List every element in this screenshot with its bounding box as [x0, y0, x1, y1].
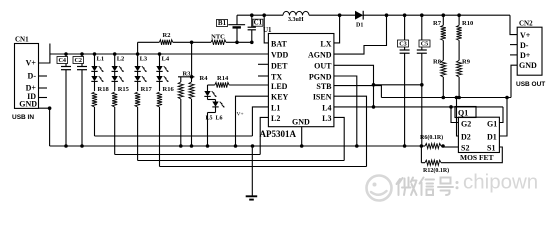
resistor R10	[457, 13, 474, 60]
svg-text:GND: GND	[519, 61, 537, 70]
svg-text:L2: L2	[271, 114, 280, 123]
svg-text:R17: R17	[141, 86, 153, 93]
wire divider bottom line	[381, 96, 511, 100]
wire top rail left	[237, 14, 283, 16]
wire CN1 ID pin	[39, 97, 48, 99]
svg-text:DET: DET	[271, 61, 288, 70]
node C2 bus junction	[80, 144, 84, 148]
svg-text:R9: R9	[462, 59, 471, 66]
wire L4 return	[160, 166, 367, 168]
resistor R6	[420, 134, 445, 149]
resistor R3	[178, 70, 191, 148]
watermark	[367, 171, 539, 201]
svg-text:USB OUT: USB OUT	[516, 81, 545, 88]
svg-text:G1: G1	[487, 120, 497, 129]
label MOS FET	[460, 153, 494, 162]
wire CN1 GND pin	[39, 106, 52, 146]
op-amp U1 AP5301A	[263, 26, 334, 127]
svg-text:GND: GND	[292, 117, 310, 126]
svg-text:GND: GND	[19, 100, 37, 109]
svg-text:L6: L6	[216, 115, 223, 121]
svg-text:R2: R2	[163, 32, 171, 39]
label USB OUT	[516, 81, 545, 88]
resistor R9	[457, 59, 471, 98]
resistor R2	[138, 32, 192, 45]
svg-text:S2: S2	[461, 144, 469, 153]
inductor 3.3uH	[283, 11, 309, 22]
wire G1	[499, 107, 503, 123]
svg-text:KEY: KEY	[271, 93, 289, 102]
wire D2	[455, 96, 459, 136]
svg-text:CN2: CN2	[519, 19, 533, 27]
svg-text:V+: V+	[237, 112, 244, 118]
label AP5301A	[260, 129, 297, 139]
svg-text:R18: R18	[98, 86, 110, 93]
wire S2 node	[442, 146, 444, 147]
svg-text:3.3uH: 3.3uH	[288, 17, 304, 23]
resistor R14	[208, 75, 269, 88]
svg-text:LED: LED	[271, 82, 288, 91]
wire L4 return riser	[334, 96, 367, 166]
wire R2 tap to rail	[137, 42, 139, 54]
wire rail to CN2 V+	[510, 15, 517, 34]
resistor R12	[421, 146, 449, 174]
svg-text:D-: D-	[520, 41, 529, 50]
node C3 bus junction	[403, 144, 407, 148]
svg-text:L1: L1	[271, 103, 280, 112]
resistor R4	[189, 75, 208, 148]
svg-text:V+: V+	[520, 31, 531, 40]
capacitor C2	[73, 52, 87, 146]
wire L1 hook	[252, 107, 268, 136]
svg-text:STB: STB	[316, 82, 332, 91]
svg-text:USB IN: USB IN	[12, 114, 34, 121]
svg-text:D2: D2	[461, 133, 471, 142]
wire IC GND pin	[300, 127, 304, 148]
svg-text:R7: R7	[433, 20, 442, 27]
wire D1	[499, 96, 508, 136]
svg-text:L3: L3	[322, 114, 331, 123]
resistor R15	[112, 86, 130, 155]
connector CN1	[15, 36, 39, 109]
LED L3	[134, 54, 148, 91]
svg-text:D1: D1	[487, 133, 497, 142]
svg-text:R16: R16	[163, 86, 175, 93]
wire top rail right	[363, 14, 510, 16]
wire VDD rail	[50, 53, 269, 55]
svg-text:G2: G2	[461, 120, 471, 129]
svg-text:AP5301A: AP5301A	[260, 129, 297, 139]
wire ground bus	[50, 145, 422, 147]
wire S1 loop	[443, 147, 502, 163]
wire L3 hook	[334, 117, 344, 160]
svg-text:L4: L4	[322, 103, 331, 112]
svg-text:R6(0.1R): R6(0.1R)	[420, 134, 443, 141]
wire L3 return	[138, 160, 345, 162]
svg-text:R12(0.1R): R12(0.1R)	[423, 167, 449, 174]
node L4 rail junction	[158, 52, 162, 56]
node L2 rail junction	[113, 52, 117, 56]
svg-text:V+: V+	[26, 59, 37, 68]
node L1 rail junction	[93, 52, 97, 56]
ground	[246, 146, 258, 200]
wire OUT	[334, 65, 375, 108]
wire KEY	[234, 96, 269, 148]
svg-text:C2: C2	[74, 57, 82, 64]
wire TX stub	[258, 75, 268, 77]
svg-text:L3: L3	[140, 56, 148, 63]
wire R3-R4 bar	[178, 75, 194, 79]
wire CN2 D- stub	[510, 44, 517, 46]
svg-text:R3: R3	[183, 70, 192, 77]
wire G2	[449, 105, 458, 122]
svg-text:D+: D+	[520, 51, 531, 60]
LED L1	[91, 54, 104, 91]
svg-text:OUT: OUT	[314, 61, 332, 70]
connector CN2	[517, 19, 542, 75]
wire STB	[334, 86, 382, 98]
wire S2	[443, 146, 458, 148]
svg-text:L4: L4	[162, 56, 170, 63]
wire PGND	[334, 76, 359, 148]
node C4 bus junction	[64, 144, 68, 148]
LED L2	[112, 54, 125, 91]
svg-text:AGND: AGND	[308, 50, 332, 59]
svg-text:D-: D-	[28, 72, 37, 81]
svg-text:LX: LX	[320, 39, 331, 48]
wire VDD stub	[267, 53, 269, 55]
wire CN1 V+ pin	[39, 44, 50, 64]
svg-text:chipown: chipown	[463, 171, 538, 194]
svg-text:VDD: VDD	[271, 50, 289, 59]
svg-text:R10: R10	[462, 20, 473, 27]
wire BAT hook	[262, 13, 268, 43]
wire DET stub	[258, 63, 268, 65]
svg-text:R4: R4	[200, 75, 209, 82]
mosfet block	[458, 117, 499, 152]
LED L4	[156, 54, 170, 91]
svg-text:S1: S1	[487, 144, 495, 153]
wire top rail mid	[309, 14, 355, 16]
svg-text:C3: C3	[399, 40, 407, 47]
svg-text:B1: B1	[218, 19, 227, 27]
capacitor C3	[398, 13, 410, 146]
label USB IN	[12, 114, 34, 121]
node ground drop	[251, 144, 255, 148]
capacitor C4	[57, 52, 71, 146]
svg-text:C1: C1	[254, 19, 263, 27]
svg-text:C5: C5	[421, 40, 429, 47]
svg-text:TX: TX	[271, 72, 282, 81]
resistor NTC	[192, 34, 252, 45]
wire AGND	[334, 13, 388, 54]
wire LX hook	[334, 15, 340, 43]
resistor R18	[92, 86, 110, 136]
resistor R16	[157, 86, 175, 167]
wire L2 return	[115, 154, 261, 156]
wire L1 return	[95, 135, 253, 137]
wire CN1 D- pin	[39, 75, 48, 77]
battery B1	[217, 15, 246, 44]
svg-text:R15: R15	[118, 86, 130, 93]
svg-text:U1: U1	[263, 26, 272, 34]
svg-text:MOS FET: MOS FET	[460, 153, 494, 162]
svg-text:L1: L1	[97, 56, 105, 63]
svg-text:ISEN: ISEN	[313, 93, 332, 102]
svg-text:Q1: Q1	[458, 108, 468, 117]
wire CN2 D+ stub	[510, 54, 517, 56]
wire CN2 GND	[511, 65, 517, 97]
svg-text:NTC: NTC	[211, 34, 225, 41]
node L5 bus junction	[206, 144, 210, 148]
svg-text:R14: R14	[217, 75, 229, 82]
svg-text:R8: R8	[433, 59, 442, 66]
wire CN1 D+ pin	[39, 87, 48, 89]
node NTC-R2 junction	[190, 41, 194, 45]
LED L6	[208, 100, 225, 147]
capacitor C1	[248, 13, 263, 44]
diode D1	[355, 11, 363, 29]
wire L2 hook	[260, 117, 268, 154]
svg-text:C4: C4	[58, 57, 66, 64]
LED L5	[204, 85, 216, 121]
svg-text:CN1: CN1	[15, 36, 29, 44]
capacitor C5	[417, 13, 430, 146]
svg-text:D1: D1	[356, 23, 363, 29]
svg-text:L2: L2	[117, 56, 125, 63]
node LX junction	[338, 13, 342, 17]
resistor R7	[433, 13, 446, 60]
transistor Q1	[455, 107, 476, 118]
svg-text:L5: L5	[206, 115, 213, 121]
resistor R17	[135, 86, 153, 161]
svg-text:PGND: PGND	[309, 72, 332, 81]
wire gate line	[334, 106, 503, 108]
wire OUT sense link	[372, 83, 424, 87]
label V+	[237, 112, 244, 118]
wire NTC junction drop	[191, 42, 193, 77]
node L3 rail junction	[136, 52, 140, 56]
resistor R8	[433, 59, 446, 98]
svg-text:BAT: BAT	[271, 39, 288, 48]
